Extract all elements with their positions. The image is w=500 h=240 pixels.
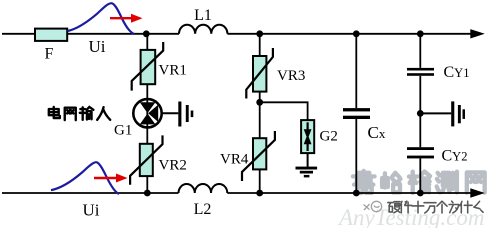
inductor L1 — [179, 25, 227, 34]
bottom rail arrowhead — [470, 188, 485, 197]
ground (right of G1) — [178, 102, 193, 127]
logo (circle mark before caption) — [364, 201, 382, 211]
capacitor CY2 — [407, 147, 434, 158]
node top-A — [143, 30, 150, 37]
wire top rail left segment — [2, 33, 179, 35]
label grid-input (dian wang shu ru) — [49, 107, 110, 120]
wire vertical branch CY1/CY2 — [419, 34, 421, 193]
capacitor CY1 — [407, 68, 434, 76]
node bottom-A — [144, 190, 151, 197]
ground (right of CY junction) — [451, 101, 465, 126]
node CY junction — [417, 110, 424, 117]
svg-text:AnyTesting.com: AnyTesting.com — [337, 205, 484, 228]
caption (hardware-why text) — [388, 201, 483, 213]
svg-text:VR2: VR2 — [159, 158, 187, 174]
node bottom-B — [256, 190, 263, 197]
varistor VR4 — [242, 131, 275, 181]
wire vertical branch CX — [355, 34, 357, 193]
watermark text (gray site name) — [353, 171, 485, 193]
svg-text:G2: G2 — [320, 129, 338, 145]
varistor VR1 — [132, 42, 164, 91]
svg-text:L1: L1 — [194, 7, 212, 24]
node bottom-CX — [353, 190, 360, 197]
gas discharge tube G1 — [133, 99, 161, 127]
varistor VR2 — [130, 135, 162, 184]
wire vertical branch VR1/G1/VR2 — [146, 34, 148, 193]
surge waveform top (blue) — [68, 3, 135, 34]
node VR3/VR4 junction — [256, 99, 263, 106]
red arrow top — [110, 17, 132, 19]
svg-text:L2: L2 — [194, 201, 212, 218]
wire junction to G2 — [260, 102, 308, 120]
wire bottom rail right segment — [227, 192, 471, 194]
wire top rail right segment — [227, 33, 471, 35]
fuse F — [35, 29, 67, 41]
inductor L2 — [179, 184, 228, 193]
surge waveform bottom (blue) — [51, 162, 119, 194]
svg-text:G1: G1 — [114, 123, 132, 139]
varistor VR3 — [246, 48, 273, 99]
svg-text:CY1: CY1 — [444, 64, 470, 81]
svg-text:VR3: VR3 — [277, 68, 305, 84]
node top-CX — [353, 30, 360, 37]
wire bottom rail left segment — [2, 192, 179, 194]
gas discharge tube G2 — [301, 120, 314, 153]
red arrow bottom — [94, 177, 117, 179]
wire G1 to ground — [162, 112, 179, 114]
svg-text:Ui: Ui — [89, 37, 106, 56]
node top-B — [256, 30, 263, 37]
node top-CY — [417, 30, 424, 37]
ground (below G2) — [296, 167, 318, 178]
svg-text:F: F — [45, 46, 54, 63]
svg-text:CY2: CY2 — [442, 148, 468, 165]
top rail arrowhead — [470, 29, 485, 38]
svg-text:VR4: VR4 — [220, 152, 249, 168]
wire CY junction to ground — [420, 112, 451, 114]
svg-text:Cx: Cx — [368, 123, 386, 142]
svg-text:Ui: Ui — [83, 201, 100, 220]
node bottom-CY — [417, 190, 424, 197]
wire G2 to ground — [307, 153, 309, 167]
capacitor CX — [343, 108, 370, 119]
svg-text:VR1: VR1 — [159, 63, 187, 79]
wire vertical branch VR3/VR4 — [259, 34, 261, 193]
